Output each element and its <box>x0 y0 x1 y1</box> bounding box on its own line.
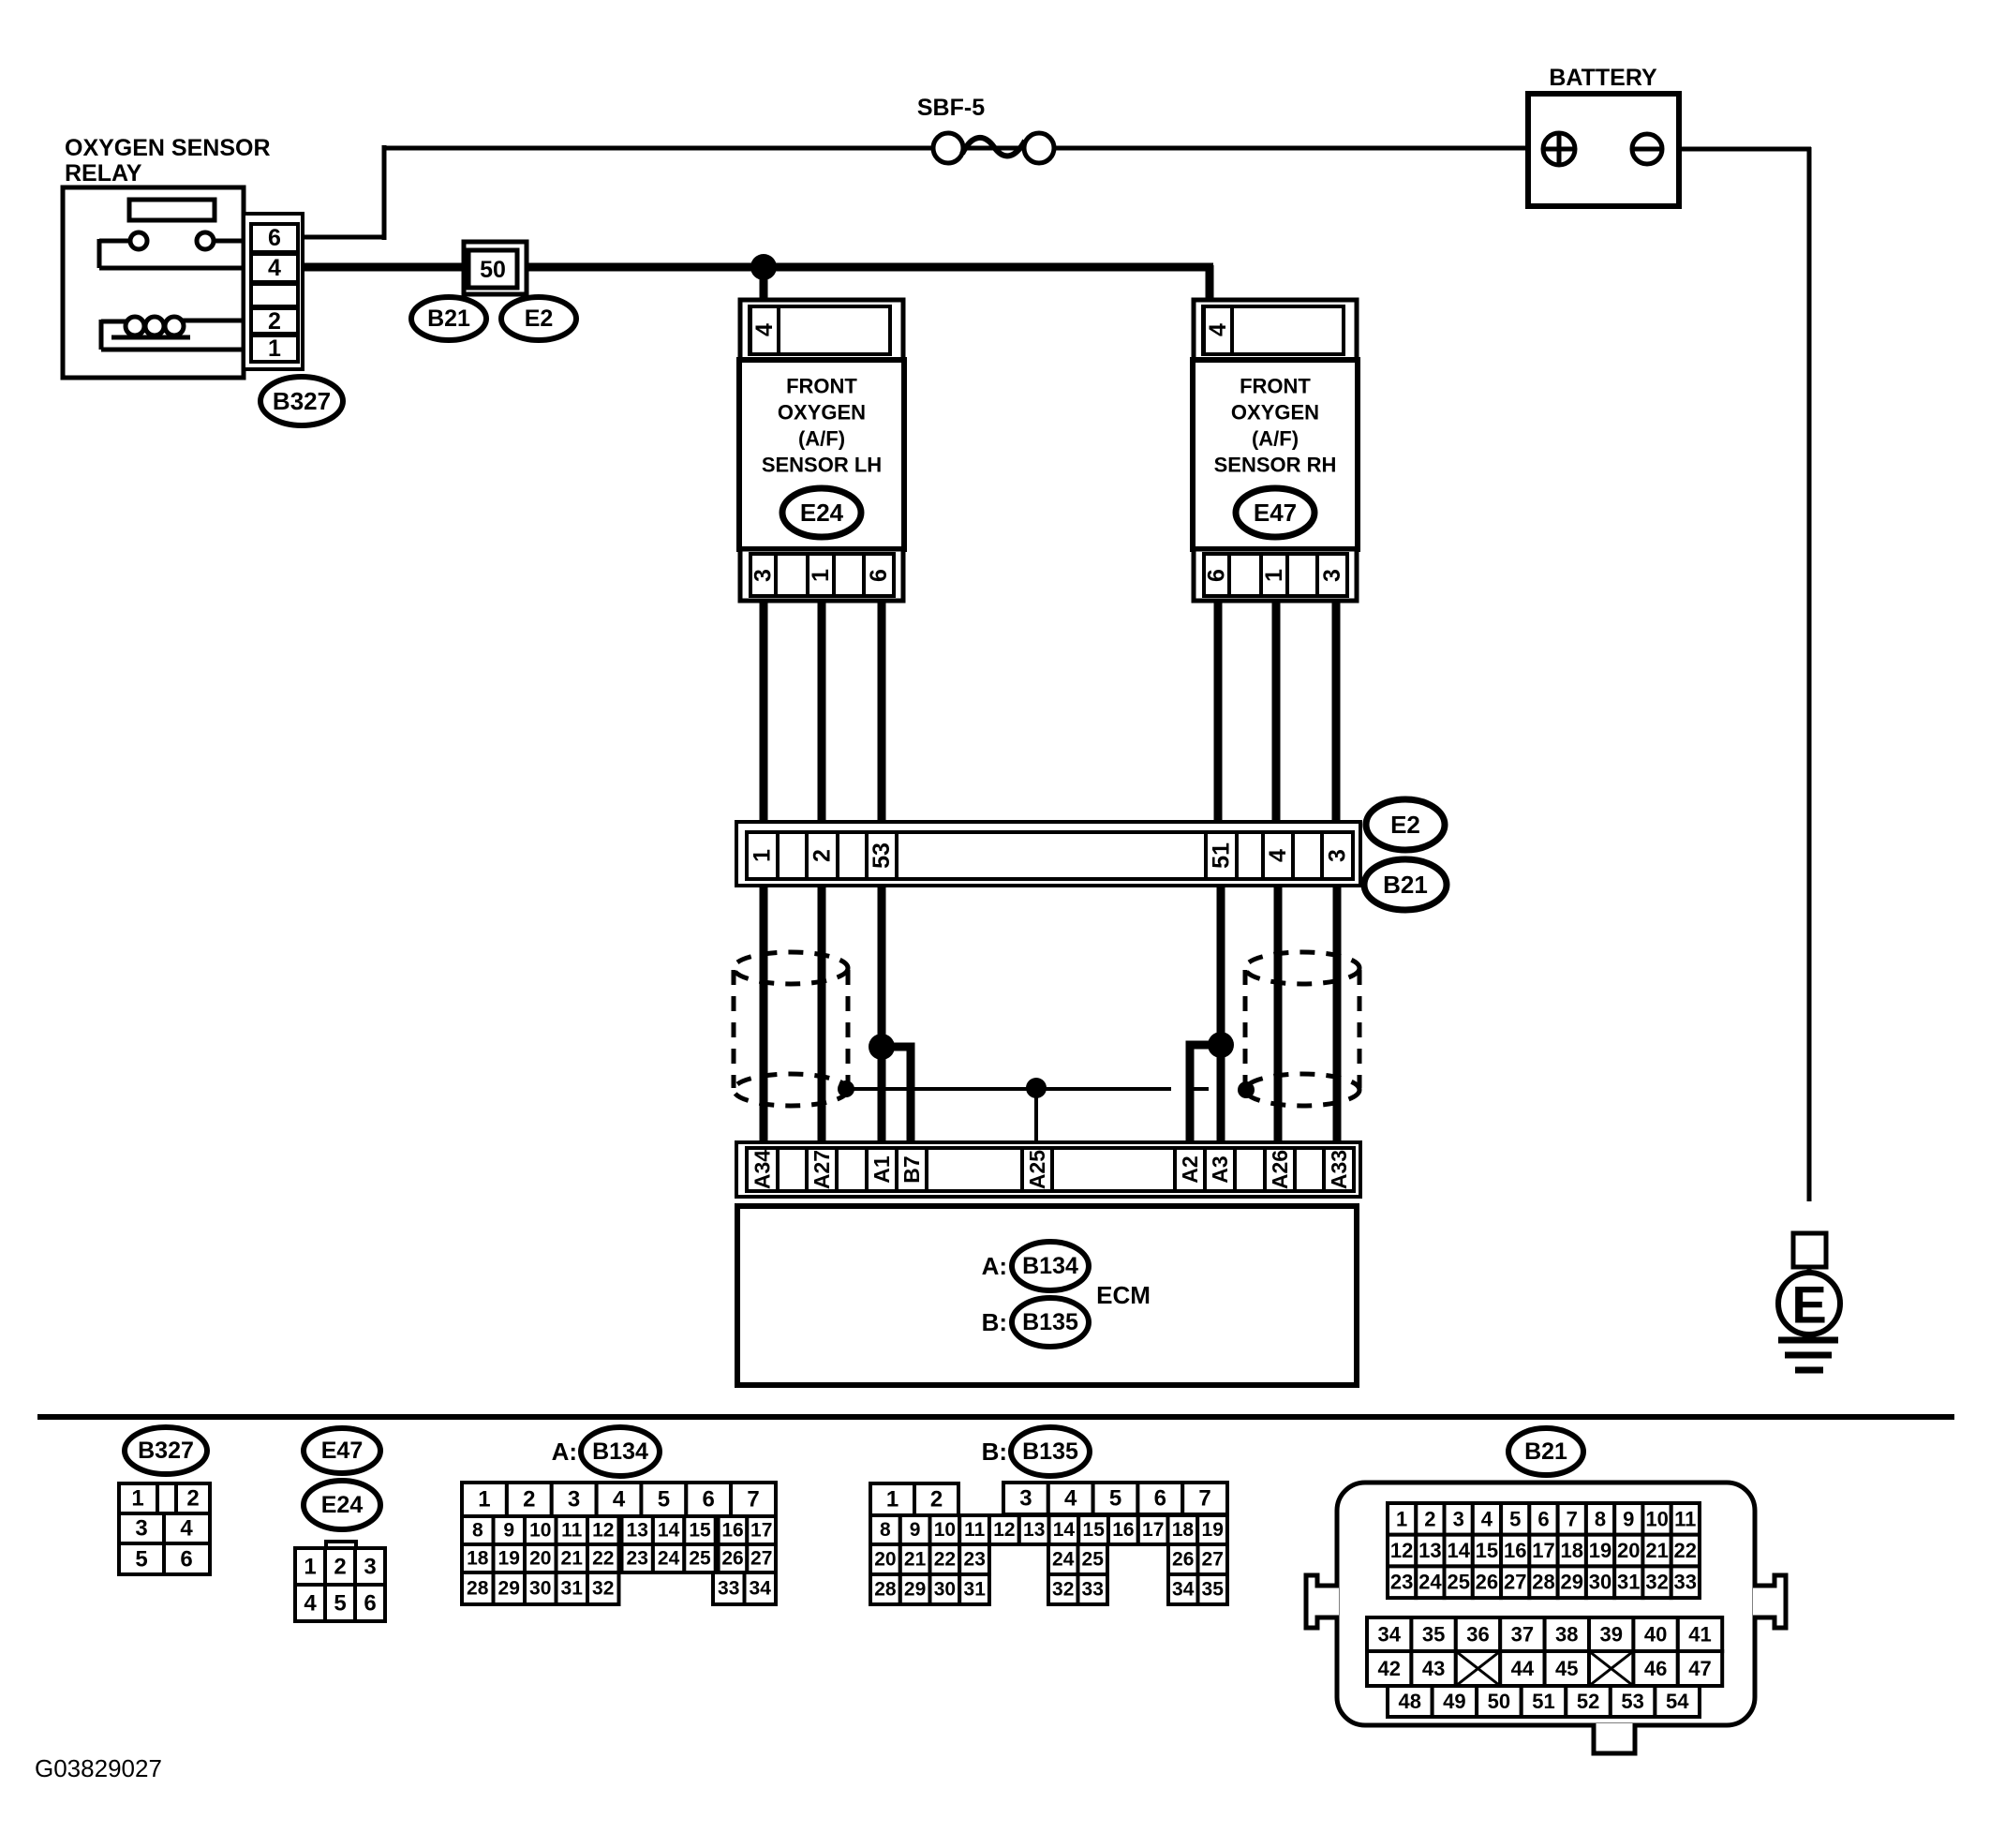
svg-text:33: 33 <box>718 1578 739 1600</box>
svg-text:16: 16 <box>1504 1539 1526 1562</box>
svg-text:14: 14 <box>658 1520 680 1542</box>
svg-text:1: 1 <box>268 335 281 362</box>
svg-text:A34: A34 <box>750 1150 775 1189</box>
svg-text:3: 3 <box>568 1487 580 1513</box>
svg-text:FRONT: FRONT <box>786 375 857 398</box>
svg-text:25: 25 <box>1082 1549 1105 1571</box>
svg-text:(A/F): (A/F) <box>1252 427 1299 451</box>
bulkhead connector E2/B21 strip <box>736 822 1360 886</box>
ECM box <box>737 1206 1357 1385</box>
svg-text:3: 3 <box>750 569 777 582</box>
svg-text:31: 31 <box>964 1579 987 1601</box>
svg-text:1: 1 <box>1261 569 1287 582</box>
wire: branch from A3 wire to ECM A2 <box>1190 1032 1234 1145</box>
svg-text:47: 47 <box>1688 1657 1711 1680</box>
svg-text:5: 5 <box>1109 1486 1121 1512</box>
svg-text:12: 12 <box>993 1519 1015 1541</box>
oval B21 (strip) <box>1364 859 1447 910</box>
svg-text:34: 34 <box>1172 1579 1195 1601</box>
svg-text:53: 53 <box>869 842 895 869</box>
svg-text:B135: B135 <box>1022 1309 1078 1335</box>
svg-text:19: 19 <box>1202 1519 1224 1541</box>
wire: RH pin 3 down to E2/B21 pin 3 <box>1332 598 1341 825</box>
relay coil <box>101 317 245 350</box>
svg-text:22: 22 <box>592 1548 614 1570</box>
svg-text:1: 1 <box>750 849 776 862</box>
ground symbol bars <box>1778 1340 1838 1370</box>
svg-text:4: 4 <box>1265 849 1291 862</box>
shield (RH sensor wires, dashed cylinder) <box>1245 952 1359 1106</box>
svg-text:50: 50 <box>480 257 506 283</box>
wire: LH pin 6 down to E2/B21 pin 53 <box>878 598 886 825</box>
svg-text:54: 54 <box>1666 1690 1689 1713</box>
svg-text:4: 4 <box>180 1516 193 1542</box>
svg-text:3: 3 <box>364 1555 376 1580</box>
svg-text:A:: A: <box>552 1438 577 1466</box>
inline connector 50 (B21/E2) <box>464 242 527 294</box>
svg-text:5: 5 <box>1509 1507 1521 1530</box>
svg-text:17: 17 <box>1142 1519 1164 1541</box>
pinout oval E24 <box>304 1481 380 1529</box>
oval E2 (strip) <box>1366 799 1445 850</box>
svg-text:B21: B21 <box>1383 871 1428 899</box>
pinout oval B327 <box>125 1427 207 1474</box>
svg-text:4: 4 <box>268 255 281 281</box>
svg-text:2: 2 <box>1424 1507 1435 1530</box>
svg-text:46: 46 <box>1644 1657 1667 1680</box>
svg-text:44: 44 <box>1511 1657 1535 1680</box>
svg-text:5: 5 <box>658 1487 670 1513</box>
svg-text:B134: B134 <box>1022 1253 1078 1279</box>
svg-text:B7: B7 <box>899 1155 924 1183</box>
wire: battery negative to ground (E) <box>1632 147 1811 1201</box>
svg-text:12: 12 <box>592 1520 614 1542</box>
svg-text:29: 29 <box>498 1578 520 1600</box>
svg-text:39: 39 <box>1599 1623 1622 1647</box>
svg-text:8: 8 <box>1595 1507 1606 1530</box>
svg-text:49: 49 <box>1443 1690 1465 1713</box>
svg-text:26: 26 <box>1476 1571 1498 1594</box>
wire: pin 4 to ECM A26 <box>1274 883 1283 1145</box>
svg-text:4: 4 <box>1205 323 1231 336</box>
svg-text:A1: A1 <box>869 1155 894 1184</box>
svg-text:A33: A33 <box>1327 1150 1351 1189</box>
svg-text:B135: B135 <box>1022 1438 1078 1465</box>
svg-text:31: 31 <box>1617 1571 1640 1594</box>
svg-text:1: 1 <box>808 569 834 582</box>
svg-text:28: 28 <box>874 1579 897 1601</box>
svg-text:2: 2 <box>523 1487 535 1513</box>
svg-text:32: 32 <box>1645 1571 1668 1594</box>
svg-text:13: 13 <box>1418 1539 1441 1562</box>
svg-text:4: 4 <box>304 1591 317 1617</box>
svg-text:8: 8 <box>880 1519 891 1541</box>
svg-text:SBF-5: SBF-5 <box>917 95 985 121</box>
svg-text:4: 4 <box>613 1487 626 1513</box>
svg-text:2: 2 <box>268 308 281 335</box>
svg-text:E2: E2 <box>1390 811 1420 839</box>
relay resistor bar <box>129 200 215 220</box>
svg-text:11: 11 <box>561 1520 583 1542</box>
svg-text:11: 11 <box>1674 1507 1696 1530</box>
battery positive terminal <box>1543 133 1575 165</box>
front oxygen (A/F) sensor RH top connector pin 4 <box>1194 300 1357 360</box>
front oxygen (A/F) sensor LH body <box>739 360 904 549</box>
svg-text:10: 10 <box>529 1520 551 1542</box>
svg-text:34: 34 <box>750 1578 772 1600</box>
svg-text:19: 19 <box>498 1548 520 1570</box>
svg-text:E24: E24 <box>800 499 844 527</box>
svg-text:27: 27 <box>1504 1571 1526 1594</box>
svg-text:10: 10 <box>934 1519 956 1541</box>
svg-text:B21: B21 <box>1524 1438 1567 1465</box>
svg-text:23: 23 <box>627 1548 648 1570</box>
svg-text:3: 3 <box>1019 1486 1032 1512</box>
svg-text:E24: E24 <box>321 1492 364 1518</box>
svg-text:OXYGEN SENSOR: OXYGEN SENSOR <box>65 135 271 161</box>
svg-text:8: 8 <box>472 1520 483 1542</box>
pinout label A: B134 <box>552 1427 660 1476</box>
svg-text:15: 15 <box>689 1520 711 1542</box>
pinout grid B135 <box>870 1483 1227 1604</box>
svg-text:3: 3 <box>1319 569 1345 582</box>
fuse SBF-5 <box>933 133 1054 163</box>
pinout grid E24/E47 <box>295 1542 385 1621</box>
svg-text:9: 9 <box>910 1519 921 1541</box>
wire: pin 3 to ECM A33 <box>1333 883 1342 1145</box>
shield drain wire to ECM A25 <box>838 1078 1255 1145</box>
svg-text:28: 28 <box>467 1578 489 1600</box>
svg-text:7: 7 <box>747 1487 759 1513</box>
front oxygen (A/F) sensor RH bottom connector pins 6,1,3 <box>1194 549 1357 601</box>
ground circle E <box>1778 1267 1840 1334</box>
svg-text:17: 17 <box>1532 1539 1554 1562</box>
svg-text:6: 6 <box>1537 1507 1549 1530</box>
svg-text:11: 11 <box>964 1519 986 1541</box>
svg-text:2: 2 <box>186 1486 199 1512</box>
svg-text:20: 20 <box>1617 1539 1640 1562</box>
wire: RH pin 6 down to E2/B21 pin 51 <box>1214 598 1223 825</box>
B21 pin grid 1-33 <box>1388 1503 1700 1598</box>
svg-text:6: 6 <box>1204 569 1230 582</box>
svg-text:SENSOR LH: SENSOR LH <box>762 454 882 477</box>
svg-text:18: 18 <box>467 1548 489 1570</box>
wire: LH pin 1 down to E2/B21 pin 2 <box>818 598 826 825</box>
svg-text:34: 34 <box>1377 1623 1401 1647</box>
svg-text:31: 31 <box>561 1578 584 1600</box>
svg-text:43: 43 <box>1422 1657 1445 1680</box>
svg-text:19: 19 <box>1589 1539 1611 1562</box>
wire: LH pin 3 down to E2/B21 pin 1 <box>760 598 768 825</box>
svg-text:B134: B134 <box>592 1438 648 1465</box>
svg-text:24: 24 <box>1418 1571 1442 1594</box>
svg-text:16: 16 <box>1112 1519 1134 1541</box>
svg-text:41: 41 <box>1688 1623 1711 1647</box>
svg-text:(A/F): (A/F) <box>798 427 845 451</box>
svg-text:B327: B327 <box>273 387 331 415</box>
svg-text:35: 35 <box>1202 1579 1225 1601</box>
svg-text:22: 22 <box>1674 1539 1697 1562</box>
svg-text:6: 6 <box>1154 1486 1166 1512</box>
svg-text:2: 2 <box>334 1555 346 1580</box>
svg-text:A25: A25 <box>1025 1150 1049 1189</box>
junction on main feed above LH sensor <box>750 254 777 280</box>
svg-text:3: 3 <box>1453 1507 1464 1530</box>
svg-text:4: 4 <box>1481 1507 1493 1530</box>
svg-text:OXYGEN: OXYGEN <box>1231 401 1319 425</box>
svg-text:36: 36 <box>1466 1623 1489 1647</box>
svg-text:ECM: ECM <box>1096 1281 1151 1309</box>
shield (LH sensor wires, dashed cylinder) <box>734 952 848 1106</box>
svg-text:BATTERY: BATTERY <box>1549 65 1657 91</box>
svg-text:E: E <box>1791 1275 1826 1334</box>
pinout grid B134 <box>462 1483 776 1604</box>
svg-text:51: 51 <box>1209 842 1235 869</box>
oxygen sensor relay box <box>63 187 244 378</box>
svg-text:23: 23 <box>1390 1571 1413 1594</box>
svg-text:33: 33 <box>1674 1571 1697 1594</box>
svg-text:9: 9 <box>1623 1507 1634 1530</box>
svg-text:B327: B327 <box>138 1438 194 1464</box>
svg-text:48: 48 <box>1399 1690 1421 1713</box>
svg-text:15: 15 <box>1083 1519 1106 1541</box>
separator line <box>37 1414 1954 1420</box>
svg-text:10: 10 <box>1645 1507 1668 1530</box>
wire: battery positive feed (relay pin 6 to battery +) <box>302 145 1545 240</box>
svg-text:B:: B: <box>982 1438 1007 1466</box>
B21 pin grid 48-54 <box>1388 1686 1700 1717</box>
svg-text:6: 6 <box>866 569 892 582</box>
svg-text:32: 32 <box>1052 1579 1074 1601</box>
svg-text:A26: A26 <box>1268 1150 1292 1189</box>
svg-text:27: 27 <box>750 1548 772 1570</box>
svg-text:32: 32 <box>592 1578 614 1600</box>
front oxygen (A/F) sensor LH bottom connector pins 3,1,6 <box>740 549 903 601</box>
svg-text:B:: B: <box>982 1308 1007 1336</box>
front oxygen (A/F) sensor LH top connector pin 4 <box>740 300 903 360</box>
svg-text:5: 5 <box>334 1591 346 1617</box>
svg-text:6: 6 <box>268 225 281 251</box>
svg-text:29: 29 <box>904 1579 926 1601</box>
wire: pin 2 to ECM A27 <box>818 883 826 1145</box>
oxygen sensor relay label <box>65 135 271 186</box>
svg-text:40: 40 <box>1644 1623 1667 1647</box>
svg-text:45: 45 <box>1555 1657 1578 1680</box>
svg-text:53: 53 <box>1621 1690 1643 1713</box>
svg-text:23: 23 <box>964 1549 986 1571</box>
svg-text:21: 21 <box>561 1548 584 1570</box>
svg-text:33: 33 <box>1082 1579 1104 1601</box>
svg-text:26: 26 <box>721 1548 743 1570</box>
svg-text:1: 1 <box>478 1487 490 1513</box>
svg-text:RELAY: RELAY <box>65 160 142 186</box>
svg-text:14: 14 <box>1447 1539 1470 1562</box>
svg-text:1: 1 <box>1396 1507 1407 1530</box>
svg-text:9: 9 <box>503 1520 514 1542</box>
svg-text:27: 27 <box>1202 1549 1224 1571</box>
oval E2 (top) <box>501 297 576 340</box>
svg-text:29: 29 <box>1561 1571 1583 1594</box>
svg-text:B21: B21 <box>427 306 470 332</box>
wire: pin 1 to ECM A34 <box>760 883 768 1145</box>
svg-text:26: 26 <box>1172 1549 1194 1571</box>
svg-text:28: 28 <box>1532 1571 1554 1594</box>
svg-text:A27: A27 <box>809 1150 834 1189</box>
svg-text:20: 20 <box>529 1548 551 1570</box>
svg-text:A:: A: <box>982 1252 1007 1280</box>
oval B21 (top) <box>411 297 486 340</box>
svg-text:FRONT: FRONT <box>1240 375 1311 398</box>
svg-text:SENSOR RH: SENSOR RH <box>1214 454 1337 477</box>
battery box <box>1528 94 1679 206</box>
ground connector square <box>1793 1233 1826 1267</box>
svg-text:1: 1 <box>131 1486 143 1512</box>
battery negative terminal <box>1632 134 1662 164</box>
svg-text:4: 4 <box>751 323 778 336</box>
svg-text:24: 24 <box>658 1548 680 1570</box>
pinout oval E47 <box>304 1428 380 1473</box>
svg-text:A3: A3 <box>1208 1155 1232 1183</box>
svg-text:21: 21 <box>904 1549 927 1571</box>
svg-text:22: 22 <box>934 1549 956 1571</box>
svg-text:21: 21 <box>1645 1539 1668 1562</box>
svg-text:6: 6 <box>703 1487 715 1513</box>
svg-text:30: 30 <box>1589 1571 1611 1594</box>
svg-text:1: 1 <box>304 1555 316 1580</box>
svg-text:5: 5 <box>135 1547 147 1572</box>
svg-text:13: 13 <box>1023 1519 1045 1541</box>
svg-text:6: 6 <box>180 1547 192 1572</box>
wire: branch down to LH sensor pin 4 <box>760 267 768 302</box>
wire: pin 51 to ECM A3 <box>1217 883 1225 1145</box>
svg-text:18: 18 <box>1172 1519 1195 1541</box>
wire: relay pin 4 main feed to sensors (thick) <box>302 265 1213 302</box>
wire: RH pin 1 down to E2/B21 pin 4 <box>1272 598 1281 825</box>
svg-text:30: 30 <box>934 1579 956 1601</box>
svg-text:51: 51 <box>1532 1690 1554 1713</box>
front oxygen (A/F) sensor RH body <box>1193 360 1358 549</box>
svg-text:2: 2 <box>809 849 836 862</box>
svg-text:1: 1 <box>886 1487 898 1513</box>
connector oval E24 <box>782 488 861 537</box>
svg-text:52: 52 <box>1577 1690 1599 1713</box>
svg-text:OXYGEN: OXYGEN <box>778 401 866 425</box>
wire: branch from A1 wire to ECM B7 <box>869 1034 911 1145</box>
svg-text:35: 35 <box>1422 1623 1445 1647</box>
pinout oval B21 <box>1508 1428 1583 1475</box>
svg-text:14: 14 <box>1053 1519 1076 1541</box>
svg-text:E47: E47 <box>321 1438 363 1464</box>
svg-text:24: 24 <box>1052 1549 1075 1571</box>
pinout grid B327 <box>119 1483 210 1574</box>
ECM connector strip (A/B pins) <box>736 1142 1360 1197</box>
svg-text:A2: A2 <box>1178 1155 1202 1183</box>
svg-text:G03829027: G03829027 <box>35 1754 162 1782</box>
svg-text:50: 50 <box>1488 1690 1510 1713</box>
B21 connector housing <box>1306 1483 1786 1753</box>
svg-text:20: 20 <box>874 1549 896 1571</box>
svg-text:E2: E2 <box>525 306 554 332</box>
svg-text:2: 2 <box>930 1487 943 1513</box>
connector oval B: B135 <box>982 1298 1089 1347</box>
svg-text:42: 42 <box>1377 1657 1400 1680</box>
connector oval E47 <box>1236 488 1314 537</box>
svg-text:7: 7 <box>1567 1507 1578 1530</box>
svg-text:17: 17 <box>750 1520 772 1542</box>
svg-text:25: 25 <box>1447 1571 1469 1594</box>
svg-text:4: 4 <box>1064 1486 1077 1512</box>
svg-text:30: 30 <box>529 1578 551 1600</box>
svg-text:37: 37 <box>1511 1623 1534 1647</box>
svg-text:12: 12 <box>1390 1539 1413 1562</box>
svg-text:3: 3 <box>135 1516 147 1542</box>
connector oval B327 <box>260 377 343 425</box>
B21 pin grid 34-47 with keyed cells <box>1367 1617 1722 1686</box>
svg-text:16: 16 <box>721 1520 743 1542</box>
svg-text:6: 6 <box>364 1591 376 1617</box>
pinout label B: B135 <box>982 1427 1090 1476</box>
svg-text:25: 25 <box>689 1548 711 1570</box>
svg-text:7: 7 <box>1198 1486 1210 1512</box>
svg-text:15: 15 <box>1476 1539 1498 1562</box>
wire: pin 53 to ECM A1 <box>878 883 886 1145</box>
svg-text:18: 18 <box>1561 1539 1583 1562</box>
svg-text:3: 3 <box>1325 849 1351 862</box>
relay contact <box>99 232 245 268</box>
connector oval A: B134 <box>982 1242 1089 1290</box>
svg-text:38: 38 <box>1555 1623 1578 1647</box>
svg-text:13: 13 <box>627 1520 648 1542</box>
relay connector B327 (pins 6,4,2,1) <box>244 214 303 369</box>
svg-text:E47: E47 <box>1254 499 1297 527</box>
